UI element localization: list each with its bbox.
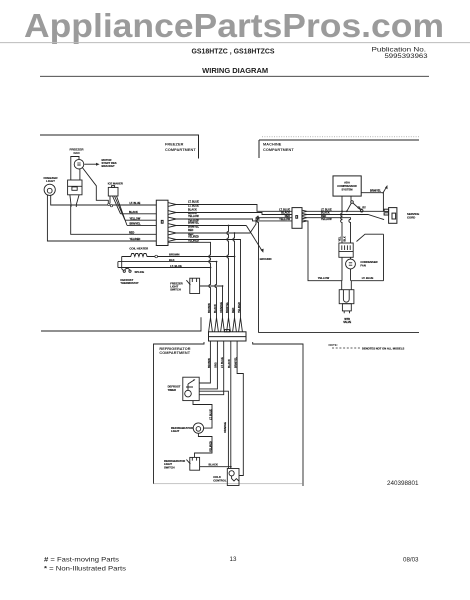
svg-text:LT. BLUE: LT. BLUE bbox=[130, 202, 141, 205]
svg-text:LT. BLUE: LT. BLUE bbox=[221, 357, 224, 368]
svg-text:LIGHT: LIGHT bbox=[171, 429, 180, 433]
svg-text:13: 13 bbox=[230, 556, 237, 563]
defrost thermostat bbox=[122, 268, 131, 272]
svg-text:BROWN: BROWN bbox=[208, 303, 211, 313]
wire m4 YELLOW down box left bbox=[307, 221, 342, 290]
svg-text:GROUND: GROUND bbox=[260, 257, 272, 261]
header rule bbox=[0, 42, 470, 44]
svg-text:5995393963: 5995393963 bbox=[385, 53, 429, 60]
svg-text:MACHINE: MACHINE bbox=[263, 143, 282, 147]
service cord plug bbox=[384, 208, 397, 224]
splice circle bbox=[155, 255, 158, 258]
refrigerator box bottom bbox=[154, 483, 304, 485]
overload relay triangle bbox=[347, 201, 363, 212]
svg-text:BRN/YEL: BRN/YEL bbox=[130, 223, 141, 226]
vertical wires to overload bbox=[341, 211, 342, 243]
svg-text:BRN/YEL: BRN/YEL bbox=[234, 357, 237, 368]
wire bus C YELLOW bbox=[125, 219, 156, 221]
fridge connector block bbox=[209, 330, 247, 341]
coil heater element BROWN wire bbox=[122, 254, 235, 257]
svg-text:BRN/YEL: BRN/YEL bbox=[226, 302, 229, 313]
svg-text:LT. BLUE: LT. BLUE bbox=[170, 264, 182, 268]
rotated wire labels below connector bbox=[208, 357, 238, 368]
bundle wire BRN/YEL down bbox=[227, 226, 229, 318]
wire bus B BLACK bbox=[121, 213, 157, 215]
svg-text:# = Fast-moving Parts: # = Fast-moving Parts bbox=[44, 557, 119, 564]
svg-text:YELLOW: YELLOW bbox=[279, 218, 290, 221]
svg-text:BLACK: BLACK bbox=[209, 463, 218, 467]
junction dots on m1 bbox=[341, 210, 348, 212]
note dashes bbox=[332, 347, 360, 349]
svg-text:FREEZER: FREEZER bbox=[165, 143, 184, 147]
bundle wire RED down bbox=[233, 233, 235, 318]
svg-text:FAN: FAN bbox=[360, 263, 365, 267]
svg-text:GS18HTZC , GS18HTZCS: GS18HTZC , GS18HTZCS bbox=[192, 48, 275, 55]
overload to bottom wires bbox=[342, 257, 351, 280]
svg-text:08/03: 08/03 bbox=[403, 557, 419, 564]
svg-text:ORANGE: ORANGE bbox=[224, 422, 227, 433]
wire m2 BLACK to service cord bbox=[307, 215, 384, 220]
refrigerator light switch bbox=[186, 457, 199, 470]
svg-text:WIRING DIAGRAM: WIRING DIAGRAM bbox=[202, 68, 268, 75]
svg-text:COLD: COLD bbox=[213, 475, 221, 479]
freezer connector block bbox=[156, 200, 168, 245]
svg-text:CORD: CORD bbox=[407, 215, 415, 219]
svg-text:FAN: FAN bbox=[74, 151, 80, 155]
machine box bottom right bbox=[351, 281, 383, 290]
wire bus E RED from fan switch bbox=[71, 205, 157, 235]
timer arrow bbox=[193, 379, 195, 381]
brn/yel ground wire bbox=[361, 193, 383, 212]
vertical wire with up arrow bbox=[257, 216, 259, 333]
callout arrow to motor bracket bbox=[84, 163, 96, 165]
wire w6 YEL/RED down bbox=[176, 240, 241, 318]
svg-text:TIMER: TIMER bbox=[168, 388, 176, 392]
refrigerator compartment box bbox=[154, 342, 304, 486]
svg-text:YEL: YEL bbox=[339, 236, 342, 241]
svg-text:YELLOW: YELLOW bbox=[318, 276, 330, 280]
wire black down to cold control bbox=[230, 341, 232, 469]
svg-text:THERMOSTAT: THERMOSTAT bbox=[120, 281, 139, 285]
section divider right bbox=[259, 332, 420, 334]
freezer light switch bbox=[186, 278, 199, 293]
svg-text:BLACK: BLACK bbox=[188, 208, 197, 211]
svg-text:YEL/RED: YEL/RED bbox=[130, 238, 141, 241]
machine block labels right bbox=[321, 209, 332, 222]
svg-text:AppliancePartsPros.com: AppliancePartsPros.com bbox=[24, 7, 444, 44]
svg-text:* = Non-Illustrated Parts: * = Non-Illustrated Parts bbox=[44, 566, 126, 573]
wire switch to bundle bbox=[200, 286, 223, 318]
timer output wire lt.blue bbox=[193, 401, 212, 429]
wire m1 LT.BLUE to service cord bbox=[307, 210, 384, 212]
svg-text:COMPARTMENT: COMPARTMENT bbox=[263, 148, 294, 152]
switch to cold control wire bbox=[200, 466, 231, 468]
wire to timer 3 bbox=[199, 341, 224, 395]
svg-text:COMPARTMENT: COMPARTMENT bbox=[159, 351, 190, 355]
ice maker receptacle bbox=[108, 186, 118, 196]
fan switch legs bbox=[70, 195, 79, 207]
svg-text:RED: RED bbox=[129, 231, 134, 234]
wire w2 BLACK to machine bbox=[176, 213, 292, 215]
svg-text:DENOTES NOT ON ALL MODELS: DENOTES NOT ON ALL MODELS bbox=[362, 346, 404, 350]
freezer light lamp bbox=[44, 184, 55, 195]
fridge connector bowties bbox=[209, 318, 243, 332]
svg-text:SPLICE: SPLICE bbox=[135, 270, 145, 274]
svg-text:LT. BLUE: LT. BLUE bbox=[209, 409, 212, 420]
svg-text:RED: RED bbox=[188, 229, 193, 232]
junction dots on branches bbox=[228, 225, 236, 234]
svg-text:SYSTEM: SYSTEM bbox=[341, 188, 353, 192]
svg-text:COMPARTMENT: COMPARTMENT bbox=[165, 148, 196, 152]
title rule bbox=[40, 75, 429, 77]
ground arrow diagonal bbox=[246, 226, 262, 251]
svg-text:YEL/RED: YEL/RED bbox=[238, 302, 241, 313]
svg-text:BLACK: BLACK bbox=[129, 211, 138, 214]
freezer fan motor M1 bbox=[74, 159, 84, 169]
cold control bbox=[227, 469, 239, 486]
condenser fan motor bbox=[346, 259, 356, 269]
svg-text:VALVE: VALVE bbox=[343, 321, 351, 324]
svg-text:RED: RED bbox=[232, 308, 235, 313]
wire brn/yel down right bbox=[237, 341, 243, 476]
svg-text:240398801: 240398801 bbox=[387, 480, 419, 487]
dashed wire along top bbox=[262, 136, 419, 138]
bundle junction dots bbox=[210, 256, 236, 287]
svg-text:NOTE:: NOTE: bbox=[329, 343, 338, 347]
wire bus A LT.BLUE bbox=[51, 195, 157, 205]
connector bowties right bbox=[168, 203, 176, 242]
svg-text:BLK: BLK bbox=[344, 236, 347, 241]
svg-text:BRACKET: BRACKET bbox=[102, 164, 115, 168]
junction dot bbox=[230, 466, 232, 468]
svg-text:OL. RY: OL. RY bbox=[358, 207, 367, 210]
wire orange timer to cold control bbox=[199, 391, 228, 468]
svg-text:SWITCH: SWITCH bbox=[164, 465, 175, 469]
compressor overload bbox=[339, 243, 353, 257]
wire fan to switch box bbox=[71, 157, 80, 181]
bundle rotated labels bbox=[208, 302, 241, 313]
wire to timer 2 bbox=[199, 341, 217, 389]
svg-text:LIGHT: LIGHT bbox=[46, 179, 55, 183]
wire fan diagonal to bus bbox=[82, 168, 108, 205]
ground arrow up bbox=[383, 187, 387, 193]
defrost timer bbox=[183, 377, 199, 400]
wire w1 LT.BLUE to machine bbox=[176, 205, 292, 212]
wire m3 RED to overload bbox=[307, 218, 351, 243]
coil left verticals bbox=[118, 257, 122, 269]
svg-text:LT. BLUE: LT. BLUE bbox=[362, 276, 374, 280]
bundle wire from connector bottom bbox=[168, 242, 211, 317]
freezer compartment bracket bbox=[40, 135, 199, 159]
svg-text:ADA: ADA bbox=[344, 180, 350, 184]
svg-text:BLACK: BLACK bbox=[228, 359, 231, 368]
machine compartment bracket bbox=[259, 140, 419, 158]
svg-text:BRN/YEL: BRN/YEL bbox=[370, 189, 381, 192]
svg-text:DEFROST: DEFROST bbox=[168, 384, 181, 388]
svg-text:SWITCH: SWITCH bbox=[170, 288, 181, 292]
svg-text:BROWN: BROWN bbox=[208, 358, 211, 368]
svg-text:BLACK: BLACK bbox=[214, 304, 217, 313]
machine block labels left bbox=[279, 209, 290, 222]
wire bus F YEL/RED from light bbox=[47, 195, 156, 241]
junction dots bbox=[108, 203, 113, 207]
svg-text:YELLOW: YELLOW bbox=[130, 217, 141, 220]
wire BLK bbox=[118, 262, 217, 318]
svg-text:YEL/RED: YEL/RED bbox=[209, 441, 212, 452]
lamp to switch wire bbox=[195, 433, 213, 457]
wire bus D BRN/YEL bbox=[127, 224, 156, 226]
svg-text:BLK: BLK bbox=[169, 258, 175, 262]
svg-text:COMPRESSOR: COMPRESSOR bbox=[337, 184, 356, 188]
section divider left bbox=[41, 317, 201, 331]
wire LT.BLUE lower bbox=[118, 267, 211, 269]
water valve bbox=[339, 290, 354, 314]
compressor box U1 bbox=[333, 176, 361, 196]
svg-text:LT. BLUE: LT. BLUE bbox=[188, 201, 199, 204]
machine block bowties bbox=[302, 210, 307, 222]
freezer fan switch box bbox=[68, 180, 82, 195]
svg-text:COIL HEATER: COIL HEATER bbox=[129, 246, 148, 250]
connector wire labels bbox=[188, 201, 199, 243]
wires below connector bbox=[199, 341, 210, 383]
svg-text:BROWN: BROWN bbox=[169, 253, 180, 257]
svg-text:CONDENSER: CONDENSER bbox=[360, 260, 377, 264]
ice maker pin wires bbox=[110, 196, 127, 225]
refrigerator lamp bbox=[193, 423, 203, 433]
svg-text:ICE MAKER: ICE MAKER bbox=[108, 182, 123, 186]
machine box right side bbox=[357, 234, 384, 281]
svg-text:ORANGE: ORANGE bbox=[220, 302, 223, 313]
wire w4 BRN/YEL with branch bbox=[176, 225, 246, 227]
machine connector block bbox=[292, 208, 302, 229]
svg-text:CONTROL: CONTROL bbox=[213, 479, 227, 483]
wire w3 YELLOW to machine bbox=[176, 219, 292, 221]
svg-text:ORG: ORG bbox=[215, 362, 218, 368]
svg-text:YEL/RED: YEL/RED bbox=[188, 236, 199, 239]
svg-text:YELLOW: YELLOW bbox=[188, 215, 199, 218]
compressor pin wires bbox=[342, 196, 351, 211]
svg-text:BRN/YEL: BRN/YEL bbox=[188, 222, 199, 225]
svg-text:YELLOW: YELLOW bbox=[321, 218, 332, 221]
wire w5 RED to machine bbox=[176, 218, 292, 233]
